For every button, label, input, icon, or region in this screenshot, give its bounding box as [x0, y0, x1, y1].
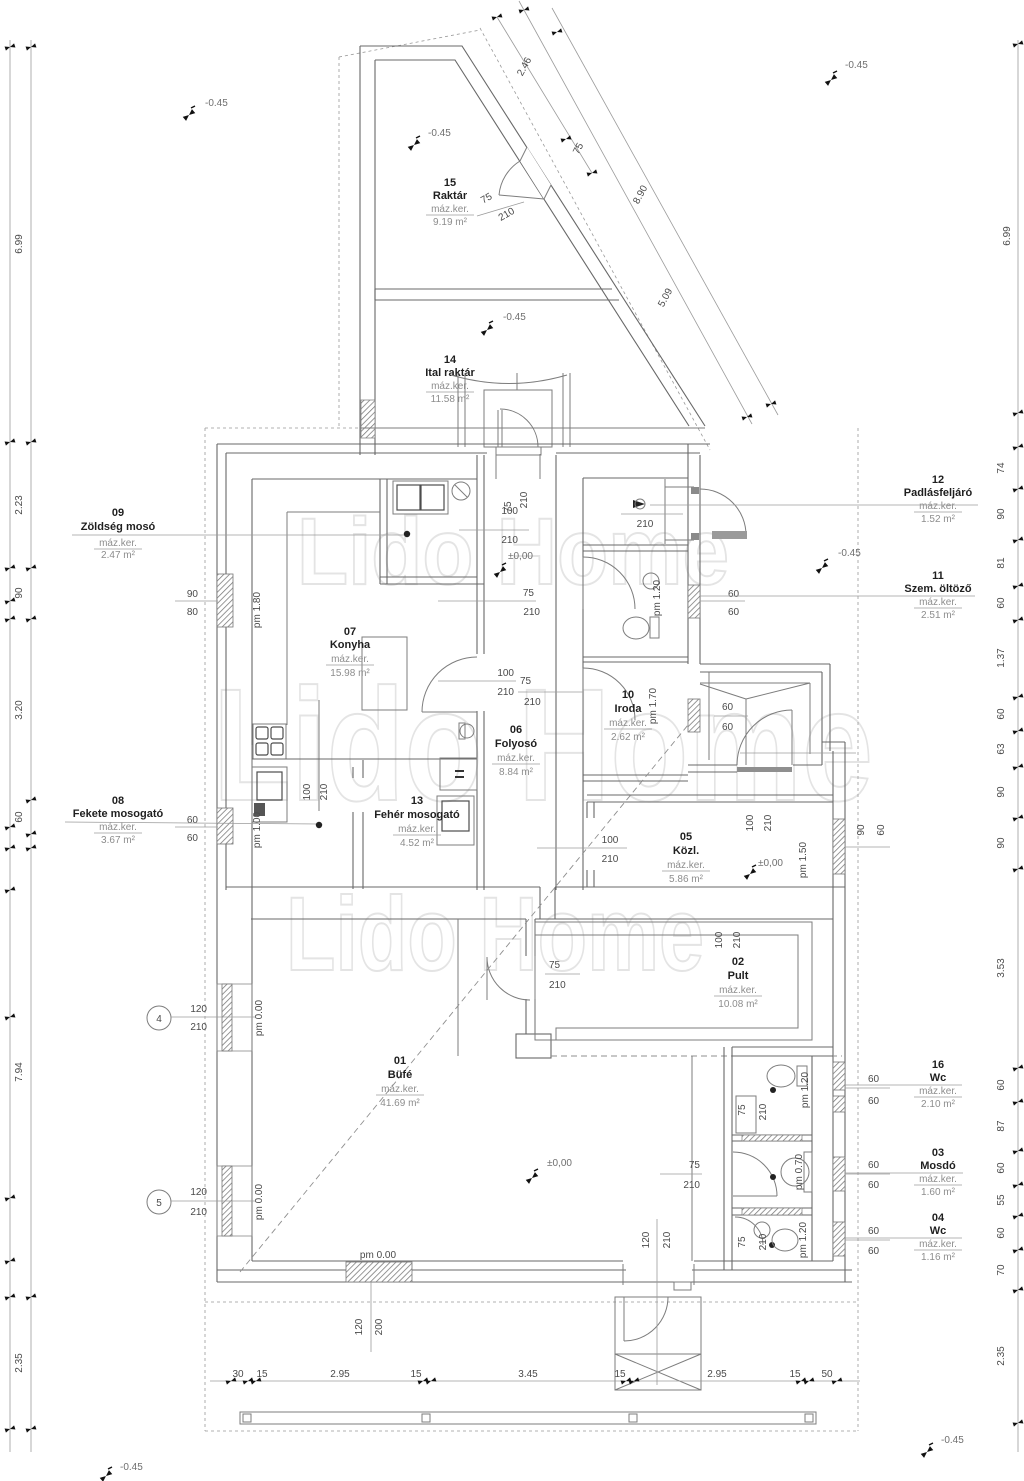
- svg-text:2.35: 2.35: [996, 1346, 1007, 1366]
- room 12 dim 210: [621, 513, 683, 515]
- room 06 Folyoso label: [492, 724, 540, 778]
- room 10 door from corridor: [583, 668, 635, 720]
- WC 04 toilet: [754, 1222, 798, 1251]
- svg-text:80: 80: [187, 607, 199, 618]
- svg-text:05: 05: [680, 831, 692, 843]
- svg-text:75: 75: [737, 1236, 748, 1248]
- svg-text:±0,00: ±0,00: [508, 551, 533, 562]
- svg-text:120: 120: [354, 1318, 365, 1335]
- svg-text:máz.ker.: máz.ker.: [381, 1084, 419, 1095]
- svg-text:15: 15: [614, 1369, 626, 1380]
- svg-text:3.53: 3.53: [996, 958, 1007, 978]
- main building left wall: [217, 444, 252, 1282]
- kitchen counters: [287, 512, 407, 725]
- svg-text:60: 60: [868, 1160, 880, 1171]
- svg-text:9.19 m²: 9.19 m²: [433, 217, 468, 228]
- svg-text:4: 4: [156, 1014, 162, 1025]
- wall hatch 03/04: [742, 1208, 802, 1215]
- svg-text:210: 210: [549, 980, 566, 991]
- door corridor to kitchen: [422, 657, 477, 712]
- svg-text:75: 75: [520, 676, 532, 687]
- svg-text:15: 15: [444, 177, 456, 189]
- svg-text:60: 60: [722, 722, 734, 733]
- svg-text:-0.45: -0.45: [838, 548, 861, 559]
- room 04 Wc label with leader: [914, 1212, 962, 1263]
- svg-text:Büfé: Büfé: [388, 1069, 412, 1081]
- svg-text:Padlásfeljáró: Padlásfeljáró: [904, 487, 973, 499]
- svg-text:2.51 m²: 2.51 m²: [921, 610, 956, 621]
- door Bufe-Pult 75/210: [487, 957, 530, 1000]
- svg-text:Fehér mosogató: Fehér mosogató: [374, 809, 460, 821]
- window 4 left wall Bufe: [217, 984, 252, 1051]
- svg-text:55: 55: [996, 1194, 1007, 1206]
- svg-text:87: 87: [996, 1120, 1007, 1132]
- window right wall 90 (Pult): [833, 819, 845, 874]
- entrance door bottom: [626, 1262, 692, 1281]
- svg-text:75: 75: [523, 588, 535, 599]
- svg-text:210: 210: [524, 697, 541, 708]
- svg-text:pm 1.50: pm 1.50: [798, 841, 809, 878]
- svg-text:200: 200: [374, 1318, 385, 1335]
- svg-text:pm 0.00: pm 0.00: [360, 1250, 397, 1261]
- svg-text:100: 100: [602, 835, 619, 846]
- svg-text:máz.ker.: máz.ker.: [99, 538, 137, 549]
- svg-text:60: 60: [187, 833, 199, 844]
- svg-text:15: 15: [789, 1369, 801, 1380]
- svg-text:60: 60: [996, 1162, 1007, 1174]
- svg-text:210: 210: [519, 491, 530, 508]
- svg-text:210: 210: [602, 854, 619, 865]
- svg-text:10: 10: [622, 689, 634, 701]
- svg-text:pm 1.20: pm 1.20: [652, 579, 663, 616]
- svg-text:60: 60: [868, 1246, 880, 1257]
- svg-text:Mosdó: Mosdó: [920, 1160, 956, 1172]
- svg-text:75: 75: [689, 1160, 701, 1171]
- svg-text:Folyosó: Folyosó: [495, 738, 537, 750]
- svg-text:90: 90: [187, 589, 199, 600]
- svg-text:100: 100: [745, 814, 756, 831]
- svg-text:pm 0.00: pm 0.00: [254, 1183, 265, 1220]
- room 09 label with leader: [81, 507, 156, 561]
- svg-text:210: 210: [683, 1180, 700, 1191]
- svg-text:±0,00: ±0,00: [547, 1158, 572, 1169]
- door corridor top steps: [496, 447, 541, 455]
- room 11 door from corridor: [583, 557, 635, 609]
- svg-text:máz.ker.: máz.ker.: [331, 654, 369, 665]
- left dimension chain inner with labels: [14, 40, 36, 1452]
- svg-text:7.94: 7.94: [14, 1062, 25, 1082]
- diagonal dimension line A (2.46 / 75): [492, 13, 598, 176]
- svg-text:2.47 m²: 2.47 m²: [101, 550, 136, 561]
- svg-text:máz.ker.: máz.ker.: [919, 1086, 957, 1097]
- interior: wall Bufe / Pult vertical with door: [516, 919, 551, 1058]
- svg-text:50: 50: [821, 1369, 833, 1380]
- svg-text:11: 11: [932, 570, 944, 582]
- svg-text:5.86 m²: 5.86 m²: [669, 874, 704, 885]
- svg-text:2.95: 2.95: [330, 1369, 350, 1380]
- svg-text:Wc: Wc: [930, 1225, 947, 1237]
- svg-text:90: 90: [856, 824, 867, 836]
- room 02 Pult label: [714, 956, 762, 1010]
- svg-text:30: 30: [232, 1369, 244, 1380]
- main building top wall: [217, 444, 710, 453]
- svg-text:Raktár: Raktár: [433, 190, 468, 202]
- svg-text:15.98 m²: 15.98 m²: [330, 668, 370, 679]
- svg-text:01: 01: [394, 1055, 406, 1067]
- room 13 Feher mosogato label: [374, 795, 460, 849]
- svg-text:pm 1.20: pm 1.20: [798, 1221, 809, 1258]
- Mosdo 03 basin: [781, 1158, 809, 1186]
- bottom elevation markers: [100, 1467, 113, 1481]
- room 10 Iroda label: [604, 689, 652, 743]
- elevation marker -0.45 right middle: [816, 559, 829, 574]
- svg-text:120: 120: [641, 1231, 652, 1248]
- svg-text:6.99: 6.99: [1002, 226, 1013, 246]
- svg-text:210: 210: [501, 535, 518, 546]
- windows right wall WC block: [833, 1062, 845, 1090]
- attic stairs symbol: [700, 672, 856, 772]
- diagonal dimension line B (8.90): [519, 1, 753, 424]
- svg-text:Fekete mosogató: Fekete mosogató: [73, 808, 164, 820]
- door Wc 04: [735, 1217, 763, 1245]
- svg-text:90: 90: [996, 508, 1007, 520]
- svg-text:8.84 m²: 8.84 m²: [499, 767, 534, 778]
- svg-text:75: 75: [503, 501, 514, 513]
- svg-text:3.45: 3.45: [518, 1369, 538, 1380]
- svg-text:1.37: 1.37: [996, 648, 1007, 668]
- svg-text:-0.45: -0.45: [205, 98, 228, 109]
- svg-text:120: 120: [190, 1004, 207, 1015]
- svg-text:04: 04: [932, 1212, 945, 1224]
- svg-text:210: 210: [758, 1103, 769, 1120]
- svg-text:60: 60: [868, 1096, 880, 1107]
- svg-text:63: 63: [996, 743, 1007, 755]
- svg-text:210: 210: [190, 1207, 207, 1218]
- room 11 Szem oltozo label with leader: [904, 570, 972, 621]
- svg-text:14: 14: [444, 354, 457, 366]
- svg-text:Wc: Wc: [930, 1072, 947, 1084]
- svg-text:Közl.: Közl.: [673, 845, 699, 857]
- svg-text:5: 5: [156, 1198, 162, 1209]
- Pult counter: [535, 922, 812, 1040]
- svg-text:2.95: 2.95: [707, 1369, 727, 1380]
- wall hatch 16/03: [742, 1135, 802, 1141]
- svg-text:210: 210: [662, 1231, 673, 1248]
- elevation marker -0.45 room 14: [481, 321, 494, 336]
- svg-text:-0.45: -0.45: [120, 1462, 143, 1473]
- WC 16 sink: [736, 1096, 756, 1133]
- svg-text:60: 60: [868, 1180, 880, 1191]
- svg-text:210: 210: [637, 519, 654, 530]
- door attic vestibule: [737, 710, 792, 765]
- room 12 Padlasfeljaro label with leader: [904, 474, 973, 525]
- diagonal dimension line C (5.09): [552, 8, 778, 415]
- svg-text:Zöldség mosó: Zöldség mosó: [81, 521, 156, 533]
- svg-text:60: 60: [187, 815, 199, 826]
- wall 08/13 vertical: [353, 760, 363, 889]
- svg-text:100: 100: [714, 931, 725, 948]
- window right wall 60 (room 11): [688, 585, 700, 618]
- main building right wall lower: [822, 742, 845, 1282]
- svg-text:100: 100: [302, 783, 313, 800]
- svg-text:60: 60: [722, 702, 734, 713]
- svg-text:60: 60: [14, 811, 25, 823]
- svg-text:Iroda: Iroda: [615, 703, 643, 715]
- svg-text:-0.45: -0.45: [503, 312, 526, 323]
- svg-text:máz.ker.: máz.ker.: [431, 204, 469, 215]
- site boundary dashed rectangle: [205, 428, 858, 1431]
- window left wall 60 (room 08): [217, 808, 233, 844]
- room 08 label with leader: [73, 795, 164, 846]
- room 12 fan symbol: [633, 500, 645, 508]
- svg-text:60: 60: [868, 1226, 880, 1237]
- door Mosdo 03: [733, 1152, 777, 1196]
- svg-text:60: 60: [728, 589, 740, 600]
- annex left wall window: [361, 400, 375, 438]
- svg-text:2.23: 2.23: [14, 495, 25, 515]
- room 07 Konyha label: [326, 626, 374, 679]
- svg-text:60: 60: [728, 607, 740, 618]
- svg-text:75: 75: [549, 960, 561, 971]
- main building bottom wall: [217, 1261, 852, 1282]
- svg-text:60: 60: [996, 597, 1007, 609]
- svg-text:-0.45: -0.45: [845, 60, 868, 71]
- right dimension chain: [996, 40, 1023, 1452]
- svg-text:máz.ker.: máz.ker.: [919, 1174, 957, 1185]
- svg-text:16: 16: [932, 1059, 944, 1071]
- svg-text:Ital raktár: Ital raktár: [425, 367, 475, 379]
- svg-text:60: 60: [996, 1227, 1007, 1239]
- room 15 Raktar label: [426, 177, 474, 228]
- WC block walls: [724, 1047, 833, 1270]
- window 5 left wall Bufe: [217, 1166, 252, 1236]
- dashed ceiling line: [551, 1055, 842, 1057]
- svg-text:60: 60: [876, 824, 887, 836]
- svg-text:90: 90: [996, 786, 1007, 798]
- svg-text:90: 90: [996, 837, 1007, 849]
- svg-text:pm 1.70: pm 1.70: [648, 687, 659, 724]
- room 16 Wc label with leader: [914, 1059, 962, 1110]
- svg-text:Lido Home: Lido Home: [213, 655, 873, 834]
- svg-text:máz.ker.: máz.ker.: [919, 1239, 957, 1250]
- svg-text:210: 210: [523, 607, 540, 618]
- attic stair vestibule right: [688, 664, 830, 772]
- window left wall 90 (kitchen): [217, 574, 233, 627]
- door D15 in diagonal wall: [520, 147, 551, 199]
- svg-text:210: 210: [319, 783, 330, 800]
- svg-text:máz.ker.: máz.ker.: [609, 718, 647, 729]
- svg-text:pm 1.20: pm 1.20: [800, 1071, 811, 1108]
- svg-text:74: 74: [996, 462, 1007, 474]
- interior: wall between kitchen and Bufe (horizontal band): [226, 887, 845, 919]
- svg-text:3.67 m²: 3.67 m²: [101, 835, 136, 846]
- svg-text:100: 100: [497, 668, 514, 679]
- svg-text:60: 60: [996, 1079, 1007, 1091]
- room 03 Mosdo label with leader: [914, 1147, 962, 1198]
- svg-text:2.10 m²: 2.10 m²: [921, 1099, 956, 1110]
- svg-text:10.08 m²: 10.08 m²: [718, 999, 758, 1010]
- svg-text:2.62 m²: 2.62 m²: [611, 732, 646, 743]
- svg-text:120: 120: [190, 1187, 207, 1198]
- svg-text:6.99: 6.99: [14, 234, 25, 254]
- elevation corridor: [494, 563, 507, 578]
- stove 4 burners: [253, 724, 286, 759]
- elevation marker -0.45 top right: [825, 71, 838, 86]
- svg-text:1.52 m²: 1.52 m²: [921, 514, 956, 525]
- elevation marker -0.45 room 15: [408, 136, 421, 151]
- svg-text:60: 60: [996, 708, 1007, 720]
- kitchen top counter and sink room 09: [393, 481, 470, 514]
- room 05 Kozl label: [662, 831, 710, 885]
- annex plot dashed boundary: [339, 28, 710, 450]
- svg-text:15: 15: [256, 1369, 268, 1380]
- svg-text:07: 07: [344, 626, 356, 638]
- svg-text:4.52 m²: 4.52 m²: [400, 838, 435, 849]
- bottom dimension chain: [210, 1369, 860, 1385]
- svg-text:13: 13: [411, 795, 423, 807]
- svg-text:máz.ker.: máz.ker.: [919, 597, 957, 608]
- svg-text:75: 75: [737, 1104, 748, 1116]
- wall between room 15 and room 14: [375, 289, 619, 300]
- door room 12 to outside: [700, 489, 747, 539]
- wall room 08 top: [252, 758, 477, 760]
- elevation Bufe: [526, 1169, 539, 1184]
- svg-text:máz.ker.: máz.ker.: [667, 860, 705, 871]
- room 14 Ital raktar label: [425, 354, 475, 405]
- svg-text:máz.ker.: máz.ker.: [398, 824, 436, 835]
- svg-text:1.16 m²: 1.16 m²: [921, 1252, 956, 1263]
- svg-text:09: 09: [112, 507, 124, 519]
- elevation marker -0.45 top left: [183, 106, 196, 121]
- room 14 vestibule to main building: [360, 373, 705, 479]
- svg-text:11.58 m²: 11.58 m²: [431, 394, 470, 405]
- svg-text:máz.ker.: máz.ker.: [431, 381, 469, 392]
- svg-text:Pult: Pult: [728, 970, 749, 982]
- svg-text:-0.45: -0.45: [941, 1435, 964, 1446]
- hatched shaft room 13: [440, 758, 477, 790]
- svg-text:3.20: 3.20: [14, 700, 25, 720]
- svg-text:pm 1.00: pm 1.00: [252, 811, 263, 848]
- svg-text:210: 210: [497, 687, 514, 698]
- svg-text:08: 08: [112, 795, 124, 807]
- svg-text:Konyha: Konyha: [330, 639, 371, 651]
- svg-text:210: 210: [763, 814, 774, 831]
- walkway strip: [240, 1412, 816, 1424]
- elevation Kozl: [744, 865, 757, 880]
- left dimension chain outer: [5, 40, 16, 1452]
- sink room 08: [252, 745, 287, 822]
- svg-text:81: 81: [996, 557, 1007, 569]
- WC 16 fixtures: toilet: [767, 1065, 807, 1087]
- room 01 Bufe label: [376, 1055, 424, 1109]
- svg-text:±0,00: ±0,00: [758, 858, 783, 869]
- svg-text:210: 210: [758, 1233, 769, 1250]
- svg-text:pm 1.80: pm 1.80: [252, 591, 263, 628]
- svg-text:02: 02: [732, 956, 744, 968]
- svg-text:máz.ker.: máz.ker.: [919, 501, 957, 512]
- svg-text:60: 60: [868, 1074, 880, 1085]
- svg-text:41.69 m²: 41.69 m²: [380, 1098, 420, 1109]
- svg-text:máz.ker.: máz.ker.: [99, 822, 137, 833]
- svg-text:210: 210: [732, 931, 743, 948]
- main building right wall upper: [688, 444, 700, 664]
- window right wall 60 (room 10): [688, 699, 700, 732]
- svg-text:15: 15: [410, 1369, 422, 1380]
- svg-text:Szem. öltöző: Szem. öltöző: [904, 583, 972, 595]
- svg-text:1.60 m²: 1.60 m²: [921, 1187, 956, 1198]
- svg-text:210: 210: [190, 1022, 207, 1033]
- svg-text:pm 0.70: pm 0.70: [794, 1153, 805, 1190]
- interior: rooms 12/11/10 dividers: [583, 478, 833, 887]
- svg-text:2.35: 2.35: [14, 1353, 25, 1373]
- svg-text:máz.ker.: máz.ker.: [719, 985, 757, 996]
- diagonal section line in Bufe: [240, 714, 697, 1272]
- window bottom wall: [346, 1262, 412, 1282]
- svg-text:70: 70: [996, 1264, 1007, 1276]
- sink room 13: [437, 796, 474, 845]
- svg-text:máz.ker.: máz.ker.: [497, 753, 535, 764]
- svg-text:pm 0.00: pm 0.00: [254, 999, 265, 1036]
- svg-text:90: 90: [14, 587, 25, 599]
- svg-text:06: 06: [510, 724, 522, 736]
- annex outer wall: [360, 46, 705, 455]
- room 11 toilet: [623, 573, 659, 639]
- line at Bufe top edge: [457, 919, 459, 1056]
- svg-text:12: 12: [932, 474, 944, 486]
- interior: kitchen block walls: [252, 455, 583, 890]
- svg-text:-0.45: -0.45: [428, 128, 451, 139]
- svg-text:03: 03: [932, 1147, 944, 1159]
